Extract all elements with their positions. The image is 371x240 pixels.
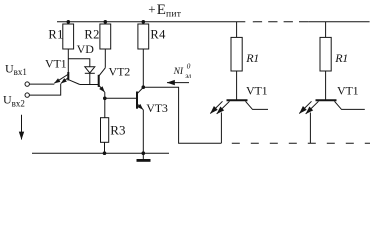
transistor VT1 (cell 1, multi-emitter driver) <box>210 84 268 114</box>
VT1 emitter 1 <box>54 75 68 84</box>
resistor R1 (cell 2, right) <box>320 22 348 71</box>
resistor R1 <box>48 22 73 49</box>
svg-text:вх2: вх2 <box>12 98 25 108</box>
svg-text:E: E <box>157 2 166 18</box>
wire VD tap from VT1 base line <box>68 59 90 67</box>
junction node rail/R4 <box>142 20 146 24</box>
transistor VT3 <box>137 87 168 115</box>
VT3 emitter <box>138 104 144 109</box>
junction node VT2 emitter / VT3 base <box>103 97 107 101</box>
output line dashed continuation <box>232 142 370 144</box>
svg-text:NI: NI <box>173 67 184 77</box>
junction node rail/R2 <box>104 20 108 24</box>
emitter a <box>299 101 311 113</box>
wire R4 to node K3 <box>142 49 144 87</box>
svg-text:R4: R4 <box>150 27 166 41</box>
svg-text:пит: пит <box>166 10 182 20</box>
diode VD <box>77 42 95 85</box>
resistor R1 (cell 1, right) <box>231 22 259 71</box>
power rail solid right segment <box>308 21 369 23</box>
wire R2 to VT2 collector <box>104 49 106 68</box>
svg-text:R1: R1 <box>245 51 259 65</box>
current annotation arrow NIэл0 <box>167 62 191 83</box>
svg-text:R1: R1 <box>334 51 348 65</box>
svg-text:VT2: VT2 <box>109 65 131 79</box>
transistor VT1 (multi-emitter input) <box>45 57 80 85</box>
arrow input direction <box>21 115 23 140</box>
power rail dashed middle segment <box>253 21 308 23</box>
svg-text:R3: R3 <box>110 122 125 137</box>
input terminal Uвх2 <box>3 93 29 109</box>
wire cell1 emitter to output line <box>220 113 222 144</box>
VT1 collector <box>69 80 80 85</box>
wire output from node K3 <box>143 87 221 143</box>
wire R1 cell1 to VT1 cell1 base <box>236 71 238 100</box>
resistor R2 <box>84 22 110 49</box>
emitter b <box>306 101 319 114</box>
emitter a <box>210 101 222 113</box>
svg-text:R1: R1 <box>48 27 63 41</box>
junction node K3 (R4 / VT3 collector / output) <box>142 85 146 89</box>
svg-text:VD: VD <box>77 42 95 56</box>
resistor R3 <box>101 118 126 143</box>
VT2 collector <box>99 68 105 76</box>
svg-text:вх1: вх1 <box>14 67 27 77</box>
power rail +E solid left segment <box>57 21 245 23</box>
collector <box>246 101 269 109</box>
ground rail <box>32 152 169 154</box>
wire to VT3 base <box>105 97 136 99</box>
svg-text:эл: эл <box>185 72 191 80</box>
wire VT3 emitter to ground rail <box>142 110 144 154</box>
svg-text:VT1: VT1 <box>45 57 67 71</box>
label +Eпит <box>148 1 182 19</box>
input terminal Uвх1 <box>5 61 29 86</box>
collector <box>335 101 365 109</box>
svg-text:VT3: VT3 <box>146 101 168 115</box>
resistor R4 <box>138 22 166 49</box>
wire VT2 emitter down to R3 <box>104 92 106 118</box>
svg-text:0: 0 <box>187 62 191 71</box>
VT2 emitter <box>99 86 104 92</box>
svg-text:+: + <box>148 1 155 16</box>
transistor VT2 <box>99 65 131 92</box>
wire input 1 to VT1 emitter 1 <box>29 83 54 85</box>
junction node R3/ground rail <box>103 151 107 155</box>
VT3 collector <box>138 87 144 93</box>
junction node rail/R1 <box>67 20 71 24</box>
emitter b <box>217 101 230 114</box>
svg-text:VT1: VT1 <box>337 84 359 98</box>
wire R1 to VT1 base <box>67 49 69 72</box>
wire R3 to ground rail <box>104 142 106 153</box>
transistor VT1 (cell 2, multi-emitter driver) <box>299 84 365 114</box>
wire R1 cell2 to VT1 cell2 base <box>325 71 327 100</box>
svg-text:VT1: VT1 <box>246 84 268 98</box>
wire VT1 collector to VT2 base <box>80 84 98 86</box>
VT1 emitter 2 <box>61 78 68 83</box>
wire input 2 to VT1 emitter 2 <box>29 84 60 96</box>
ground symbol <box>137 153 151 160</box>
junction node VT3 emitter/ground rail <box>142 151 146 155</box>
wire cell2 emitter to output line <box>309 113 311 144</box>
svg-text:R2: R2 <box>84 27 99 41</box>
